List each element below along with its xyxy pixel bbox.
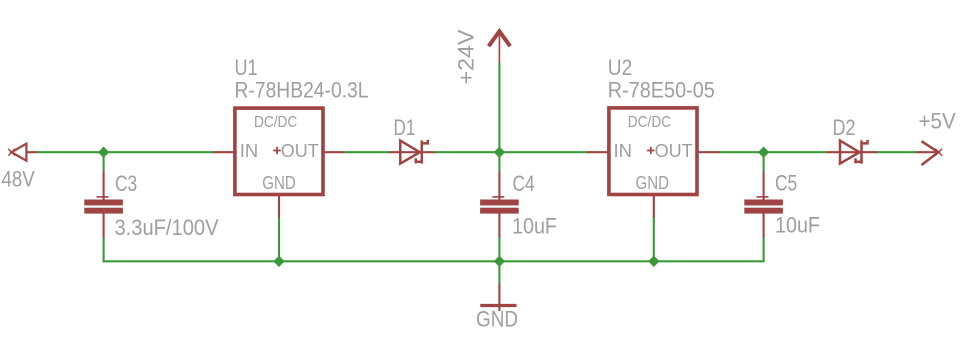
label 10uF (C5) xyxy=(775,213,820,238)
capacitor C5 pins xyxy=(757,172,769,238)
U2 pin OUT stub xyxy=(698,151,720,153)
svg-text:+24V: +24V xyxy=(454,29,479,84)
diode D2 line through xyxy=(827,151,878,153)
svg-text:OUT: OUT xyxy=(281,140,319,161)
svg-text:10uF: 10uF xyxy=(775,213,820,238)
label +5V xyxy=(919,109,957,134)
junction: node +24V at C4 xyxy=(494,147,505,158)
port +5V output arrow xyxy=(916,141,942,165)
wire: C5 bottom stub xyxy=(763,236,765,262)
label 3.3uF/100V xyxy=(115,215,219,240)
U2 pin IN stub xyxy=(587,151,608,153)
op U1 box xyxy=(235,108,323,194)
U1 text DC/DC xyxy=(254,114,297,131)
label D2 xyxy=(833,115,856,140)
U1 pin GND stub xyxy=(278,195,280,218)
junction: rail at U1 GND xyxy=(273,256,284,267)
label C4 xyxy=(513,171,535,196)
label R-78E50-05 xyxy=(608,78,715,103)
svg-text:10uF: 10uF xyxy=(512,214,557,239)
supply +24V arrow xyxy=(489,31,511,63)
capacitor C3 pins xyxy=(97,172,109,238)
svg-text:+5V: +5V xyxy=(919,109,957,134)
wire: C3 bottom stub xyxy=(103,236,105,262)
label U1 xyxy=(235,55,258,80)
capacitor C3 plates xyxy=(84,200,123,214)
op U2 box xyxy=(609,108,697,195)
U2 pin name +OUT (plus) xyxy=(647,147,654,155)
svg-text:48V: 48V xyxy=(2,167,35,192)
wire: C4 bottom stub xyxy=(498,236,500,261)
label D1 xyxy=(394,115,416,140)
wire: D1 cathode to U2 IN (+24V net) xyxy=(435,151,588,153)
wire: C5 top stub xyxy=(763,152,765,172)
svg-text:GND: GND xyxy=(262,172,296,193)
U2 pin name +OUT (OUT) xyxy=(655,140,693,161)
capacitor C4 plates xyxy=(480,200,519,214)
svg-text:IN: IN xyxy=(240,140,259,161)
wire: rail to GND symbol xyxy=(498,261,500,284)
U1 pin OUT stub xyxy=(324,151,345,153)
diode D2 triangle xyxy=(840,141,860,164)
wire: D2 cathode to +5V port xyxy=(877,151,917,153)
diode D1 triangle xyxy=(400,141,420,164)
port 48V input arrow xyxy=(8,144,36,161)
svg-text:U2: U2 xyxy=(608,55,633,80)
label R-78HB24-0.3L xyxy=(235,78,369,103)
U2 pin GND stub xyxy=(653,195,655,218)
label GND (net) xyxy=(476,306,518,331)
wire: U2 GND pin to rail xyxy=(653,217,655,262)
junction: node 48V at C3 xyxy=(98,147,109,158)
svg-text:3.3uF/100V: 3.3uF/100V xyxy=(115,215,219,240)
diode D1 schottky cathode xyxy=(416,140,428,164)
svg-text:R-78E50-05: R-78E50-05 xyxy=(608,78,715,103)
svg-text:OUT: OUT xyxy=(655,140,693,161)
junction: node +5V at C5 xyxy=(758,147,769,158)
U1 pin name GND xyxy=(262,172,296,193)
label 10uF (C4) xyxy=(512,214,557,239)
capacitor C5 plates xyxy=(744,200,783,214)
svg-text:C4: C4 xyxy=(513,171,535,196)
wire: U2 OUT to D2 anode xyxy=(719,151,827,153)
label C5 xyxy=(775,170,797,195)
capacitor C4 pins xyxy=(492,172,504,238)
label +24V (vertical) xyxy=(454,29,479,84)
svg-text:C3: C3 xyxy=(115,171,137,196)
U1 pin name +OUT (OUT) xyxy=(281,140,319,161)
label U2 xyxy=(608,55,633,80)
wire: U1 GND pin to rail xyxy=(278,217,280,262)
svg-text:DC/DC: DC/DC xyxy=(628,114,671,131)
label 48V xyxy=(2,167,35,192)
svg-text:IN: IN xyxy=(614,140,633,161)
svg-text:R-78HB24-0.3L: R-78HB24-0.3L xyxy=(235,78,369,103)
U2 pin name IN xyxy=(614,140,633,161)
svg-text:GND: GND xyxy=(476,306,518,331)
svg-text:DC/DC: DC/DC xyxy=(254,114,297,131)
diode D2 schottky cathode xyxy=(856,140,868,164)
svg-text:C5: C5 xyxy=(775,170,797,195)
diode D1 line through xyxy=(389,151,435,153)
wire: +24V supply vertical xyxy=(498,63,500,153)
label C3 xyxy=(115,171,137,196)
wire: U1 OUT to D1 anode xyxy=(344,151,390,153)
U2 pin name GND xyxy=(636,172,670,193)
svg-text:D1: D1 xyxy=(394,115,416,140)
junction: rail at U2 GND xyxy=(648,256,659,267)
wire: bottom ground rail xyxy=(103,260,764,262)
svg-text:U1: U1 xyxy=(235,55,258,80)
svg-text:GND: GND xyxy=(636,172,670,193)
wire: C4 top stub xyxy=(498,152,500,172)
wire: 48V input net to U1 IN xyxy=(36,151,214,153)
wire: C3 top stub xyxy=(103,152,105,172)
U1 pin name IN xyxy=(240,140,259,161)
junction: rail at GND symbol xyxy=(494,256,505,267)
svg-text:D2: D2 xyxy=(833,115,856,140)
U1 pin IN stub xyxy=(213,151,234,153)
ground symbol GND xyxy=(480,284,516,312)
U1 pin name +OUT (plus) xyxy=(273,147,280,155)
U2 text DC/DC xyxy=(628,114,671,131)
